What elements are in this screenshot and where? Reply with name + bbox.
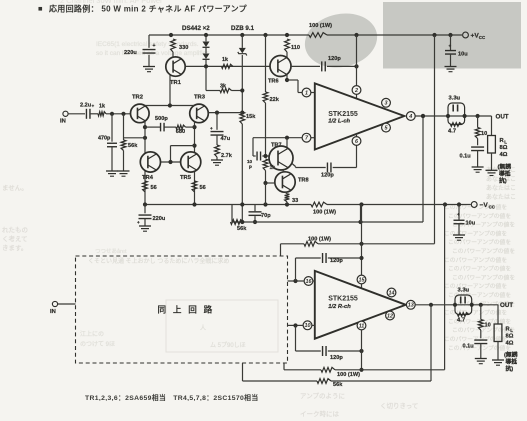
svg-text:470p: 470p [98, 136, 111, 142]
svg-text:TR4: TR4 [142, 175, 154, 181]
svg-text:1k: 1k [270, 165, 276, 171]
svg-text:15: 15 [359, 277, 366, 283]
svg-text:330: 330 [179, 45, 188, 51]
svg-text:70p: 70p [261, 213, 271, 219]
svg-text:TR8: TR8 [298, 178, 309, 184]
svg-text:10: 10 [485, 323, 491, 329]
svg-text:L: L [504, 140, 507, 145]
svg-text:3.3u: 3.3u [449, 96, 461, 102]
svg-text:4.7: 4.7 [448, 129, 456, 135]
svg-text:22k: 22k [270, 97, 280, 103]
svg-text:■: ■ [38, 4, 43, 13]
svg-text:導抵: 導抵 [499, 170, 511, 178]
svg-text:120p: 120p [330, 258, 343, 264]
svg-text:このパワーアンプの値を: このパワーアンプの値を [444, 229, 507, 237]
svg-text:3: 3 [385, 101, 388, 107]
svg-text:120p: 120p [328, 56, 341, 62]
svg-text:220u: 220u [153, 216, 166, 222]
svg-text:16: 16 [306, 279, 313, 285]
svg-text:56: 56 [200, 185, 206, 191]
svg-text:1/2 L-ch: 1/2 L-ch [328, 118, 350, 124]
svg-text:56: 56 [151, 185, 157, 191]
svg-text:(無誘: (無誘 [504, 351, 518, 359]
svg-text:(無誘: (無誘 [498, 163, 512, 171]
svg-text:4Ω: 4Ω [500, 152, 508, 158]
svg-text:DS442 ×2: DS442 ×2 [182, 25, 210, 32]
svg-text:このパワーアンプの値を: このパワーアンプの値を [448, 265, 511, 273]
svg-text:く考えて: く考えて [2, 235, 28, 243]
svg-text:アンプのように: アンプのように [300, 392, 345, 400]
svg-text:−V: −V [480, 202, 489, 209]
svg-text:応用回路例： 50 W min 2 チャネル AF パワーア: 応用回路例： 50 W min 2 チャネル AF パワーアンプ [49, 4, 248, 14]
svg-text:ム 5プ90しほ: ム 5プ90しほ [210, 342, 246, 349]
svg-text:OUT: OUT [500, 302, 513, 309]
svg-text:このパワーアンプの値を: このパワーアンプの値を [444, 282, 507, 290]
svg-text:100 (1W): 100 (1W) [337, 372, 360, 378]
svg-text:このパワーアンプの値を: このパワーアンプの値を [452, 221, 515, 229]
svg-text:0.1u: 0.1u [460, 154, 472, 160]
svg-text:12: 12 [387, 313, 393, 319]
svg-text:100 (1W): 100 (1W) [309, 23, 332, 29]
svg-text:120p: 120p [330, 355, 343, 361]
svg-text:1/2 R-ch: 1/2 R-ch [328, 304, 351, 310]
svg-text:このパワーアンプの値を: このパワーアンプの値を [448, 238, 511, 246]
svg-text:IN: IN [50, 309, 56, 315]
svg-text:TR7: TR7 [271, 143, 282, 149]
svg-text:10: 10 [481, 131, 487, 137]
svg-text:TR5: TR5 [180, 175, 192, 181]
svg-text:イーク時には: イーク時には [300, 410, 340, 418]
svg-text:DZB 9.1: DZB 9.1 [231, 25, 255, 32]
svg-text:1k: 1k [99, 104, 105, 110]
svg-text:120p: 120p [321, 173, 334, 179]
svg-text:4.7: 4.7 [457, 318, 465, 324]
svg-text:ません。: ません。 [2, 184, 28, 192]
svg-text:導抵: 導抵 [506, 358, 518, 366]
svg-text:+: + [210, 126, 213, 131]
svg-text:100 (1W): 100 (1W) [313, 210, 336, 216]
svg-text:+: + [137, 220, 140, 225]
svg-text:11: 11 [359, 323, 365, 329]
svg-text:+: + [153, 43, 156, 49]
svg-text:江上にの: 江上にの [80, 330, 104, 338]
svg-text:8Ω: 8Ω [500, 145, 508, 151]
svg-text:680: 680 [176, 129, 185, 135]
svg-text:56k: 56k [128, 143, 138, 149]
svg-text:抗): 抗) [506, 365, 514, 373]
svg-text:2.2u: 2.2u [80, 103, 92, 109]
svg-text:0.1u: 0.1u [463, 344, 475, 350]
svg-text:TR6: TR6 [268, 79, 279, 85]
svg-text:れたもの: れたもの [2, 226, 28, 234]
svg-text:抗): 抗) [499, 177, 507, 185]
svg-text:14: 14 [389, 290, 395, 296]
svg-text:100 (1W): 100 (1W) [308, 237, 331, 243]
svg-text:このパワーアンプの値を: このパワーアンプの値を [448, 344, 511, 352]
svg-text:15k: 15k [246, 114, 256, 120]
svg-text:500p: 500p [155, 116, 168, 122]
svg-text:く切りきって: く切りきって [380, 402, 418, 410]
svg-text:10: 10 [305, 323, 311, 329]
svg-text:13: 13 [408, 303, 414, 309]
svg-text:OUT: OUT [496, 114, 509, 121]
svg-text:人: 人 [200, 325, 206, 332]
svg-text:CC: CC [479, 35, 486, 40]
svg-text:くそとい見通 そ上おかし つるためにハラ全戦に求め: くそとい見通 そ上おかし つるためにハラ全戦に求め [88, 257, 229, 265]
svg-text:IN: IN [60, 119, 66, 125]
svg-text:TR1,2,3,6：2SA659相当 TR4,5,7,8：2: TR1,2,3,6：2SA659相当 TR4,5,7,8：2SC1570相当 [85, 393, 258, 402]
svg-text:10u: 10u [458, 52, 468, 58]
svg-text:L: L [510, 328, 513, 333]
svg-text:STK2155: STK2155 [328, 296, 358, 303]
svg-text:TR2: TR2 [132, 94, 143, 100]
svg-text:このパワーアンプの値を: このパワーアンプの値を [444, 256, 507, 264]
svg-text:1: 1 [305, 90, 308, 96]
svg-text:8Ω: 8Ω [506, 334, 514, 340]
svg-text:このパワーアンプの値を: このパワーアンプの値を [452, 273, 515, 281]
svg-text:+: + [92, 104, 95, 109]
svg-text:このパワーアンプの値を: このパワーアンプの値を [452, 247, 515, 255]
svg-text:56k: 56k [333, 382, 343, 388]
svg-text:+: + [457, 212, 460, 217]
svg-text:110: 110 [291, 45, 300, 51]
svg-text:220u: 220u [124, 50, 137, 56]
svg-text:のつけて 9ほ: のつけて 9ほ [80, 341, 115, 348]
svg-text:STK2155: STK2155 [328, 111, 358, 118]
svg-text:1k: 1k [222, 57, 228, 63]
svg-text:47u: 47u [221, 136, 231, 142]
svg-text:TR3: TR3 [194, 94, 206, 100]
svg-text:33: 33 [292, 198, 298, 204]
svg-text:つつせあåret: つつせあåret [95, 248, 127, 255]
svg-text:+: + [449, 44, 452, 49]
svg-text:3.3u: 3.3u [458, 288, 470, 294]
svg-text:あなたはこ: あなたはこ [486, 194, 516, 201]
svg-text:4: 4 [408, 114, 412, 120]
svg-text:きます。: きます。 [2, 244, 27, 252]
svg-text:あなたはこ: あなたはこ [486, 185, 516, 192]
svg-text:10u: 10u [466, 221, 476, 227]
svg-text:p: p [249, 164, 252, 169]
svg-text:56k: 56k [237, 226, 247, 232]
svg-text:TR1: TR1 [170, 80, 182, 86]
svg-text:4Ω: 4Ω [506, 340, 514, 346]
svg-text:2.7k: 2.7k [221, 153, 233, 159]
svg-text:2: 2 [354, 88, 358, 94]
svg-text:3k: 3k [220, 83, 226, 89]
svg-text:CC: CC [489, 205, 496, 210]
